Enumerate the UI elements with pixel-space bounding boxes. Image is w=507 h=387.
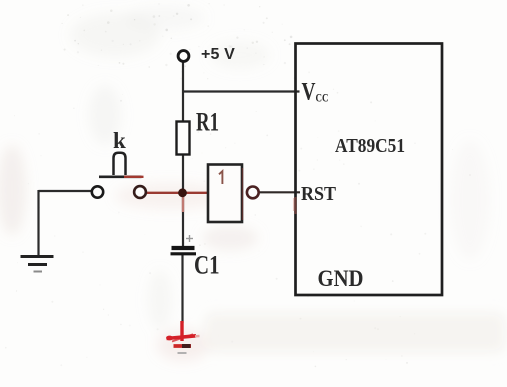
svg-text:CC: CC [316, 93, 329, 105]
svg-text:k: k [113, 128, 126, 153]
svg-text:C1: C1 [194, 250, 220, 280]
svg-text:V: V [302, 79, 316, 106]
svg-text:R1: R1 [196, 107, 219, 137]
svg-text:+5 V: +5 V [201, 46, 235, 63]
svg-text:AT89C51: AT89C51 [335, 135, 405, 157]
svg-text:RST: RST [301, 183, 337, 205]
svg-text:GND: GND [318, 266, 364, 291]
